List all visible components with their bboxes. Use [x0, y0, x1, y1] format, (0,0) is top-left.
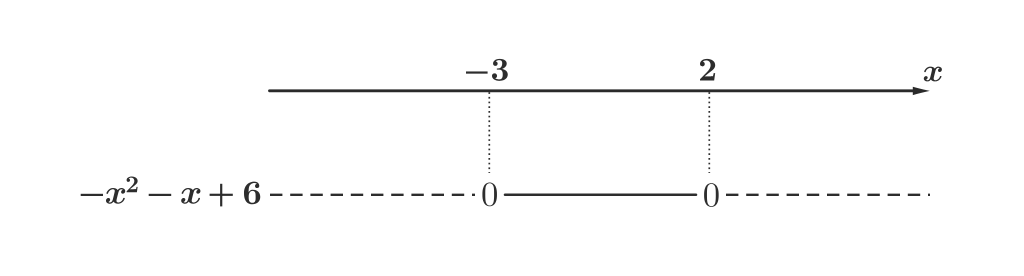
expression label: superscript 2 (bold) [127, 176, 138, 192]
expression label: plus sign [210, 184, 233, 207]
x-axis line [270, 89, 915, 92]
expression label: leading minus sign [81, 194, 103, 196]
dotted guide line at x=2 [708, 92, 710, 173]
dotted guide line at x=-3 [488, 92, 490, 173]
expression label: digit 6 (bold) [244, 182, 260, 205]
expression label: binary minus sign [149, 194, 172, 196]
zero of expression at x=-3 [482, 182, 497, 206]
tick label -3 : minus stroke [466, 71, 488, 73]
solid sign segment (positive, between -3 and 2) [505, 194, 696, 197]
expression label: x of x squared (bold math italic) [106, 188, 125, 204]
tick label -3 : digit 3 (bold) [492, 59, 508, 81]
x-axis arrowhead [913, 87, 930, 95]
dashed sign segment (negative, right of 2) [726, 194, 930, 196]
axis label x (bold math italic) [924, 67, 942, 82]
expression label: second x (bold math italic) [181, 188, 200, 204]
zero of expression at x=2 [704, 183, 719, 207]
tick label 2 (bold) [700, 59, 715, 81]
dashed sign segment (negative, left of -3) [270, 194, 475, 196]
